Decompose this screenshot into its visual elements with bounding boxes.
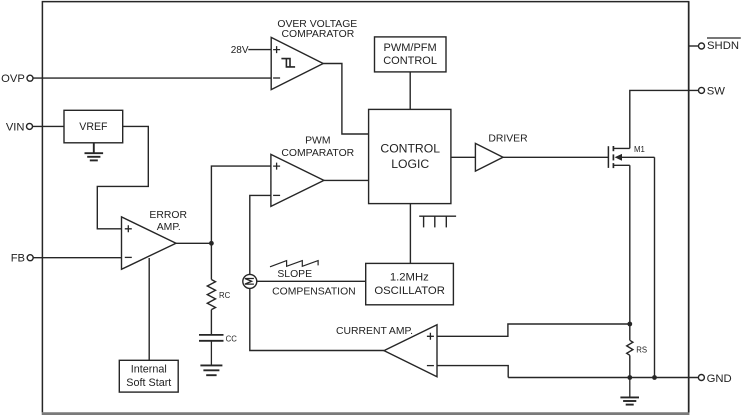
svg-text:CC: CC: [226, 334, 238, 343]
op-amp error amp: [122, 210, 188, 269]
IC boundary bottom edge: [42, 412, 690, 415]
op-amp current amp: [336, 325, 437, 377]
node GND junction dot at body wire: [652, 375, 657, 380]
ground at RS: [620, 378, 639, 405]
svg-text:CONTROL: CONTROL: [380, 141, 440, 155]
transistor M1: [608, 145, 654, 168]
wire PWM comparator minus input to summer: [250, 195, 271, 274]
svg-text:RC: RC: [219, 291, 231, 300]
28V supply label: [231, 45, 271, 56]
wire summer down to current amp output: [250, 288, 384, 350]
clock comb symbol: [419, 216, 456, 227]
svg-text:CONTROL: CONTROL: [383, 55, 437, 67]
summing node sigma: [243, 274, 257, 288]
wire VIN to VREF: [33, 125, 64, 127]
wire GND rail: [508, 377, 698, 379]
node RS top junction dot: [627, 322, 632, 327]
capacitor CC: [199, 334, 237, 343]
comparator PWM: [271, 135, 355, 206]
svg-text:PWM/PFM: PWM/PFM: [384, 42, 437, 54]
control logic box: [369, 109, 451, 203]
svg-text:FB: FB: [11, 252, 25, 264]
svg-text:M1: M1: [634, 145, 645, 154]
wire RC to CC: [210, 310, 212, 335]
wire current amp plus input to RS top: [437, 324, 630, 336]
wire MOSFET body to GND rail: [654, 157, 656, 377]
wire SW to MOSFET drain: [630, 90, 699, 148]
svg-text:CURRENT AMP.: CURRENT AMP.: [336, 326, 413, 337]
wire FB to error amp minus input: [33, 257, 121, 259]
ground under CC: [200, 341, 222, 375]
svg-text:RS: RS: [636, 345, 647, 354]
wire VREF to error amp plus input: [97, 126, 148, 228]
svg-text:DRIVER: DRIVER: [488, 133, 528, 144]
comparator over voltage: [271, 19, 357, 90]
svg-text:OVP: OVP: [1, 73, 25, 85]
wire oscillator to control logic: [409, 204, 411, 264]
svg-text:SW: SW: [707, 86, 726, 98]
resistor RC: [207, 280, 230, 310]
svg-text:LOGIC: LOGIC: [391, 157, 429, 171]
wire summer to oscillator: [257, 280, 366, 282]
svg-text:COMPARATOR: COMPARATOR: [281, 148, 354, 159]
svg-text:AMP.: AMP.: [157, 222, 181, 233]
svg-text:SLOPE: SLOPE: [277, 269, 312, 280]
svg-text:1.2MHz: 1.2MHz: [390, 272, 429, 284]
wire error amp output: [176, 242, 211, 244]
VREF box: [64, 110, 123, 143]
wire COMP node down to RC: [210, 243, 212, 279]
wire control logic to driver: [451, 156, 476, 158]
svg-text:SHDN: SHDN: [707, 40, 739, 52]
svg-text:PWM: PWM: [305, 135, 330, 146]
svg-text:COMPENSATION: COMPENSATION: [272, 286, 356, 297]
ground under VREF: [85, 143, 104, 161]
svg-text:Soft Start: Soft Start: [126, 377, 171, 389]
wire over voltage comparator output to control logic: [323, 64, 368, 135]
svg-text:ERROR: ERROR: [149, 210, 187, 221]
oscillator box: [366, 263, 454, 304]
label SLOPE COMPENSATION: [272, 269, 356, 297]
svg-text:OSCILLATOR: OSCILLATOR: [374, 285, 445, 297]
wire current amp minus input to GND rail: [437, 366, 508, 378]
svg-text:VREF: VREF: [79, 121, 108, 133]
pin GND: [698, 373, 731, 385]
svg-text:Internal: Internal: [131, 363, 167, 375]
wire PWM PFM control to control logic: [409, 72, 411, 110]
wire COMP node up to PWM comparator plus input: [211, 166, 271, 243]
pin OVP: [1, 73, 33, 85]
wire driver to MOSFET gate: [503, 156, 608, 158]
buffer driver: [475, 133, 528, 171]
svg-text:COMPARATOR: COMPARATOR: [282, 29, 355, 40]
wire error amp to soft start box: [148, 258, 150, 360]
resistor RS: [627, 324, 647, 378]
svg-text:VIN: VIN: [6, 122, 25, 134]
IC boundary right edge overdraw: [688, 2, 690, 413]
PWM PFM control box: [375, 37, 447, 72]
wire SHDN stub: [689, 45, 699, 47]
node COMP junction dot: [209, 241, 214, 246]
pin SW: [699, 86, 726, 98]
slope compensation sawtooth symbol: [270, 261, 318, 267]
Internal Soft Start box: [119, 360, 178, 392]
svg-text:GND: GND: [707, 373, 732, 385]
node GND junction dot at RS bottom: [627, 375, 632, 380]
pin SHDN: [699, 38, 741, 52]
pin VIN: [6, 122, 33, 134]
wire MOSFET source down to RS: [629, 165, 631, 324]
wire OVP to over-voltage comparator minus input: [33, 77, 271, 79]
svg-text:28V: 28V: [231, 45, 249, 56]
wire PWM comparator output to control logic: [324, 179, 369, 181]
pin FB: [11, 252, 33, 264]
